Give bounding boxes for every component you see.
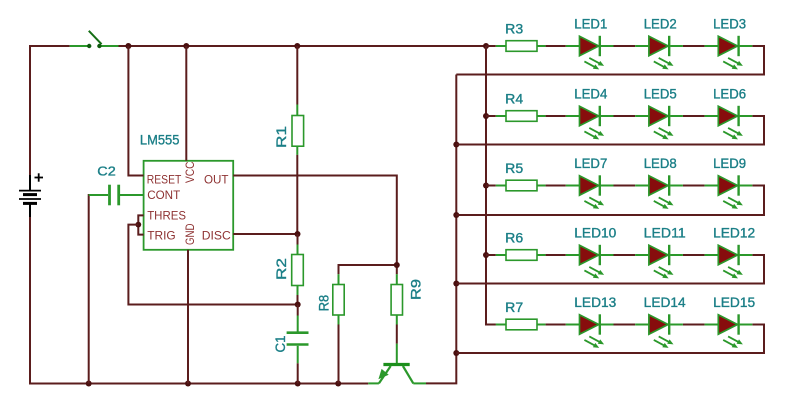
svg-text:LED11: LED11 bbox=[644, 226, 686, 241]
svg-text:R7: R7 bbox=[505, 300, 523, 315]
svg-text:R9: R9 bbox=[407, 279, 423, 300]
svg-text:LED6: LED6 bbox=[713, 87, 746, 102]
svg-text:LED1: LED1 bbox=[574, 17, 607, 32]
svg-text:LED15: LED15 bbox=[713, 295, 755, 310]
svg-text:LED14: LED14 bbox=[644, 295, 686, 310]
svg-text:LED9: LED9 bbox=[713, 156, 746, 171]
svg-text:RESET: RESET bbox=[147, 172, 182, 186]
svg-text:OUT: OUT bbox=[204, 173, 229, 187]
svg-text:THRES: THRES bbox=[147, 209, 186, 223]
svg-text:R5: R5 bbox=[505, 161, 523, 176]
svg-text:C2: C2 bbox=[97, 165, 116, 179]
svg-text:LED7: LED7 bbox=[574, 156, 607, 171]
svg-text:R8: R8 bbox=[315, 295, 331, 312]
svg-text:LED5: LED5 bbox=[644, 87, 677, 102]
svg-text:LED3: LED3 bbox=[713, 17, 746, 32]
svg-text:R1: R1 bbox=[273, 126, 289, 148]
svg-text:LED8: LED8 bbox=[644, 156, 677, 171]
svg-text:TRIG: TRIG bbox=[147, 229, 176, 243]
svg-text:LED2: LED2 bbox=[644, 17, 677, 32]
svg-text:LED13: LED13 bbox=[574, 295, 616, 310]
svg-text:R4: R4 bbox=[505, 91, 524, 106]
svg-text:LM555: LM555 bbox=[140, 131, 180, 147]
svg-text:R2: R2 bbox=[273, 258, 289, 280]
svg-text:R6: R6 bbox=[505, 230, 523, 245]
svg-text:R3: R3 bbox=[505, 21, 523, 36]
svg-text:CONT: CONT bbox=[147, 188, 181, 202]
svg-text:VCC: VCC bbox=[183, 161, 197, 183]
svg-text:C1: C1 bbox=[273, 336, 288, 353]
svg-text:LED12: LED12 bbox=[713, 226, 755, 241]
svg-text:LED4: LED4 bbox=[574, 87, 607, 102]
svg-text:DISC: DISC bbox=[202, 229, 231, 243]
svg-text:GND: GND bbox=[183, 223, 197, 245]
svg-text:LED10: LED10 bbox=[574, 226, 616, 241]
